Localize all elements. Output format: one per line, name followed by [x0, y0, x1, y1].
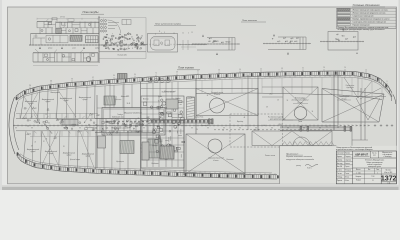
svg-text:11: 11 — [186, 122, 188, 124]
svg-text:Машинное отделение: Машинное отделение — [124, 112, 142, 115]
svg-text:26: 26 — [207, 95, 209, 97]
svg-text:26: 26 — [215, 41, 217, 43]
svg-text:11: 11 — [191, 32, 193, 34]
svg-text:15: 15 — [303, 98, 305, 100]
svg-text:19: 19 — [31, 146, 33, 148]
svg-text:План мостика: План мостика — [242, 20, 258, 22]
svg-text:48: 48 — [129, 103, 131, 105]
svg-text:28: 28 — [107, 47, 109, 49]
svg-text:22: 22 — [138, 118, 140, 120]
svg-text:18: 18 — [127, 103, 129, 105]
svg-text:11: 11 — [159, 31, 161, 33]
svg-text:Рубка: Рубка — [158, 96, 162, 98]
svg-text:Нач.отд: Нач.отд — [337, 163, 343, 165]
svg-text:49 700: 49 700 — [60, 17, 65, 19]
svg-text:Чертил: Чертил — [337, 156, 342, 158]
svg-text:План палубы: План палубы — [83, 10, 99, 14]
svg-text:29: 29 — [285, 38, 287, 40]
svg-text:52: 52 — [43, 141, 45, 143]
svg-text:План трюма: План трюма — [178, 66, 194, 70]
svg-text:кубрик: кубрик — [48, 48, 53, 50]
svg-text:18: 18 — [45, 114, 47, 116]
svg-text:Орлов: Орлов — [345, 166, 350, 168]
svg-text:Балласт: Балласт — [227, 159, 234, 161]
svg-text:кубрик: кубрик — [30, 151, 35, 153]
svg-text:жилых и служебных: жилых и служебных — [366, 164, 382, 166]
svg-text:26: 26 — [137, 49, 139, 51]
svg-text:Чертёж составлен согласно: Чертёж составлен согласно — [286, 156, 312, 158]
svg-text:Настил ВЛ: Настил ВЛ — [201, 125, 210, 127]
svg-text:кубрик: кубрик — [66, 154, 71, 156]
svg-text:Лист: Лист — [376, 169, 379, 171]
svg-text:Козлов: Козлов — [345, 163, 350, 165]
svg-text:Запасн. танк: Запасн. танк — [265, 155, 275, 157]
svg-text:28: 28 — [117, 46, 119, 48]
svg-text:Смирнов: Смирнов — [345, 159, 351, 161]
svg-text:Цистерна: Цистерна — [116, 161, 124, 163]
svg-text:18: 18 — [129, 39, 131, 41]
svg-text:14: 14 — [296, 41, 298, 43]
svg-text:15: 15 — [141, 36, 143, 38]
svg-text:28: 28 — [354, 37, 356, 39]
svg-text:54: 54 — [312, 111, 314, 113]
svg-text:25,0: 25,0 — [277, 124, 281, 126]
svg-text:51: 51 — [140, 148, 142, 150]
svg-text:кубрик: кубрик — [28, 103, 33, 105]
svg-text:25: 25 — [35, 141, 37, 143]
svg-text:23: 23 — [277, 100, 279, 102]
svg-text:АВР-МР-07: АВР-МР-07 — [354, 153, 369, 156]
svg-text:Грузовой трюм №2: Грузовой трюм №2 — [208, 157, 224, 160]
svg-text:ст. 11: ст. 11 — [387, 182, 390, 184]
svg-text:отделение: отделение — [346, 87, 353, 89]
svg-text:кубрик: кубрик — [82, 99, 87, 101]
svg-text:104: 104 — [50, 81, 52, 83]
svg-text:11: 11 — [372, 180, 374, 182]
svg-text:15: 15 — [121, 36, 123, 38]
svg-text:110: 110 — [29, 85, 31, 87]
svg-text:Румпельное: Румпельное — [346, 85, 355, 87]
svg-text:14: 14 — [117, 42, 119, 44]
svg-text:Вес: Вес — [368, 169, 371, 171]
svg-text:25,0: 25,0 — [269, 94, 273, 96]
svg-text:29: 29 — [108, 38, 110, 40]
svg-text:Белов: Белов — [345, 176, 349, 178]
svg-text:45: 45 — [113, 132, 115, 134]
svg-text:Гл.инж: Гл.инж — [337, 170, 342, 172]
svg-text:16: 16 — [263, 125, 265, 127]
svg-text:11: 11 — [173, 33, 175, 35]
svg-text:49: 49 — [166, 107, 168, 109]
svg-text:Копиров.: Копиров. — [356, 176, 362, 178]
svg-text:26: 26 — [134, 47, 136, 49]
svg-text:каюта: каюта — [34, 36, 38, 38]
svg-text:21: 21 — [131, 36, 133, 38]
svg-text:16: 16 — [298, 38, 300, 40]
svg-text:29: 29 — [291, 41, 293, 43]
svg-text:1372: 1372 — [381, 174, 397, 183]
svg-text:10: 10 — [222, 42, 224, 44]
svg-text:кубрик: кубрик — [63, 100, 68, 102]
svg-text:г. Ленинград: г. Ленинград — [383, 156, 391, 158]
svg-text:Составил: Составил — [337, 152, 344, 154]
svg-text:13: 13 — [210, 38, 212, 40]
svg-text:16: 16 — [292, 38, 294, 40]
svg-text:21: 21 — [103, 45, 105, 47]
svg-text:217: 217 — [373, 155, 376, 157]
svg-text:35: 35 — [48, 123, 50, 125]
svg-text:1 : 100: 1 : 100 — [356, 172, 361, 174]
svg-text:55: 55 — [158, 101, 160, 103]
svg-text:53: 53 — [287, 100, 289, 102]
svg-text:Шкиперская: Шкиперская — [50, 92, 59, 94]
svg-text:Грузовой трюм: Грузовой трюм — [211, 91, 224, 94]
svg-text:25: 25 — [29, 134, 31, 136]
svg-text:Соглас.: Соглас. — [337, 173, 343, 175]
svg-text:25: 25 — [141, 121, 143, 123]
svg-text:Общее расположение: Общее расположение — [366, 162, 383, 164]
svg-text:19: 19 — [137, 37, 139, 39]
svg-text:18: 18 — [63, 146, 65, 148]
svg-text:Морское агент-: Морское агент- — [382, 152, 393, 154]
svg-text:Листов 2: Листов 2 — [385, 170, 391, 172]
svg-text:21: 21 — [343, 35, 345, 37]
svg-text:Петров: Петров — [345, 156, 351, 158]
svg-text:натурным обмерам теплохода: натурным обмерам теплохода — [286, 158, 314, 161]
svg-text:27: 27 — [123, 44, 125, 46]
svg-text:14: 14 — [132, 38, 134, 40]
svg-text:11: 11 — [223, 130, 225, 132]
svg-text:Нач.КБ: Нач.КБ — [337, 166, 342, 168]
svg-text:38: 38 — [64, 98, 66, 100]
svg-text:24: 24 — [196, 129, 198, 131]
svg-text:Условные обозначения: Условные обозначения — [353, 4, 381, 7]
svg-text:32: 32 — [27, 126, 29, 128]
svg-text:27: 27 — [347, 39, 349, 41]
svg-text:48: 48 — [244, 117, 246, 119]
svg-text:Иванов: Иванов — [345, 152, 350, 154]
svg-text:(Трюм): (Трюм) — [253, 130, 259, 132]
svg-text:Принял: Принял — [337, 180, 342, 182]
svg-text:58: 58 — [266, 106, 268, 108]
svg-text:Шахта МКО: Шахта МКО — [121, 96, 130, 98]
svg-text:На обмотках надписи: На обмотках надписи — [268, 116, 283, 118]
svg-text:12: 12 — [80, 131, 82, 133]
svg-text:Утверд.: Утверд. — [337, 176, 343, 178]
svg-text:20: 20 — [138, 40, 140, 42]
svg-text:21: 21 — [326, 126, 328, 128]
svg-text:36: 36 — [60, 123, 62, 125]
svg-text:15 тонн: 15 тонн — [214, 94, 220, 96]
svg-text:26: 26 — [126, 39, 128, 41]
svg-text:салон: салон — [72, 47, 76, 49]
svg-text:Зак. №: Зак. № — [372, 152, 377, 154]
svg-text:на площадях принадлежащих э: на площадях принадлежащих экипажу судна … — [338, 29, 386, 31]
svg-text:Провер.: Провер. — [337, 159, 343, 161]
svg-text:Вентил.: Вентил. — [143, 99, 149, 101]
svg-text:кубрик: кубрик — [45, 101, 50, 103]
svg-text:15: 15 — [279, 41, 281, 43]
svg-text:11: 11 — [182, 33, 184, 35]
svg-text:27: 27 — [138, 42, 140, 44]
svg-text:Т-58: Т-58 — [371, 176, 374, 178]
svg-text:Масшт.: Масшт. — [356, 169, 361, 171]
svg-text:Тамбур: Тамбур — [117, 114, 123, 116]
svg-text:V-58 г.: V-58 г. — [307, 168, 312, 170]
svg-text:43: 43 — [46, 139, 48, 141]
svg-text:23: 23 — [113, 36, 115, 38]
svg-text:Попов: Попов — [345, 173, 350, 175]
svg-text:23: 23 — [217, 41, 219, 43]
svg-text:План шлюпочной палубы: План шлюпочной палубы — [155, 23, 181, 26]
svg-text:18: 18 — [286, 41, 288, 43]
svg-text:Палуба (Б): Палуба (Б) — [117, 54, 126, 56]
